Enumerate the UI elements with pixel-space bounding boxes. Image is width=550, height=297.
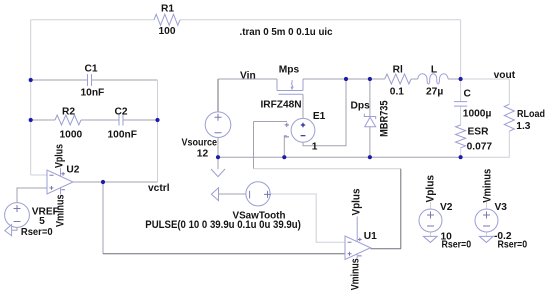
svg-text:Vminus: Vminus: [55, 195, 67, 228]
svg-text:E1: E1: [313, 111, 326, 122]
svg-text:U1: U1: [364, 231, 377, 242]
svg-text:Vplus: Vplus: [351, 189, 363, 216]
svg-text:Rser=0: Rser=0: [442, 240, 472, 251]
svg-text:C2: C2: [115, 106, 128, 117]
svg-text:Vsource: Vsource: [182, 138, 218, 149]
svg-text:C: C: [464, 89, 472, 100]
svg-text:Vin: Vin: [240, 70, 256, 81]
svg-text:Rl: Rl: [393, 64, 403, 75]
svg-text:vctrl: vctrl: [148, 183, 170, 194]
svg-text:100nF: 100nF: [108, 129, 137, 140]
svg-text:Vplus: Vplus: [425, 175, 437, 203]
svg-text:0.077: 0.077: [467, 142, 493, 153]
svg-text:vout: vout: [494, 70, 516, 81]
svg-text:Dps: Dps: [351, 100, 371, 111]
svg-text:12: 12: [197, 149, 209, 160]
svg-text:RLoad: RLoad: [517, 109, 545, 120]
svg-text:27µ: 27µ: [426, 87, 443, 98]
svg-text:1000µ: 1000µ: [463, 108, 492, 119]
svg-text:V2: V2: [440, 202, 453, 213]
svg-text:1.3: 1.3: [516, 121, 530, 132]
svg-text:Rser=0: Rser=0: [498, 240, 528, 251]
svg-text:10nF: 10nF: [81, 88, 105, 99]
svg-text:V3: V3: [495, 202, 508, 213]
svg-text:C1: C1: [85, 64, 98, 75]
svg-text:L: L: [431, 64, 437, 75]
svg-text:0.1: 0.1: [390, 86, 404, 97]
svg-text:.tran 0 5m 0 0.1u uic: .tran 0 5m 0 0.1u uic: [240, 27, 333, 38]
svg-text:100: 100: [159, 26, 176, 37]
svg-text:MBR735: MBR735: [379, 100, 391, 136]
svg-text:Vminus: Vminus: [481, 169, 493, 203]
svg-text:IRFZ48N: IRFZ48N: [261, 99, 302, 110]
svg-text:Vminus: Vminus: [349, 258, 361, 290]
svg-text:R2: R2: [62, 106, 75, 117]
svg-text:1: 1: [312, 142, 318, 153]
svg-text:5: 5: [39, 216, 45, 227]
svg-text:1000: 1000: [60, 129, 83, 140]
svg-text:Vplus: Vplus: [53, 144, 65, 168]
svg-text:ESR: ESR: [468, 127, 490, 138]
svg-text:PULSE(0 10 0 39.9u 0.1u 0u 39.: PULSE(0 10 0 39.9u 0.1u 0u 39.9u): [145, 219, 300, 231]
svg-text:U2: U2: [66, 165, 79, 176]
svg-text:Mps: Mps: [279, 64, 300, 75]
svg-text:R1: R1: [161, 3, 174, 14]
svg-text:Rser=0: Rser=0: [21, 227, 53, 238]
